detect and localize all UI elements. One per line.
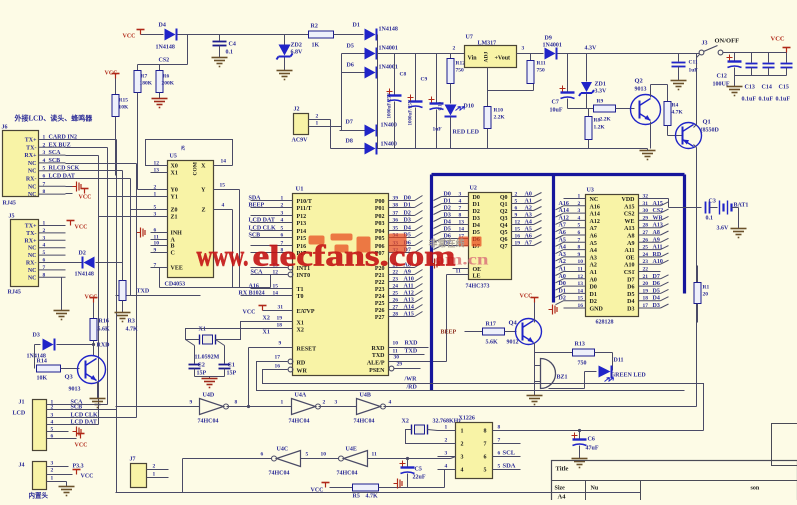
- svg-text:4: 4: [459, 199, 462, 205]
- svg-text:D4: D4: [404, 226, 411, 232]
- svg-text:11: 11: [578, 267, 583, 273]
- U5 pin 1 Y1: [151, 196, 168, 198]
- ground under C12: [727, 86, 743, 88]
- svg-text:23: 23: [643, 259, 649, 265]
- wire Q1 emitter up to rail: [696, 54, 698, 125]
- svg-text:X2: X2: [263, 316, 270, 322]
- svg-text:D1: D1: [473, 202, 480, 208]
- U1 pin 34 P05 to bus D5: [389, 237, 415, 239]
- J1 pin 1 SCA: [47, 404, 69, 406]
- U3 pin 3 A14: [556, 213, 564, 217]
- svg-text:1: 1: [153, 472, 156, 478]
- U1 pin 10 RXD: [389, 347, 429, 349]
- svg-text:ON/OFF: ON/OFF: [715, 38, 740, 45]
- svg-text:U4D: U4D: [203, 393, 215, 399]
- X2 wiring: [428, 430, 438, 431]
- svg-text:4: 4: [389, 400, 392, 406]
- MCU U1 main box: [293, 194, 389, 376]
- svg-text:D4: D4: [627, 299, 634, 305]
- U3 pin 2 A16: [556, 206, 564, 210]
- U1 pin 33 P06 to bus D6: [389, 245, 415, 247]
- U3 right pin 20 D6: [639, 285, 661, 287]
- svg-text:9013: 9013: [69, 387, 81, 393]
- svg-text:RX+: RX+: [24, 238, 37, 244]
- svg-text:3: 3: [459, 192, 462, 198]
- wire X1226 VCC line: [493, 430, 704, 432]
- U1 pin 3 P12: [251, 215, 293, 217]
- wire joining bypass caps bottoms: [735, 75, 787, 77]
- svg-text:6: 6: [484, 455, 487, 461]
- svg-text:Y0: Y0: [171, 188, 178, 194]
- J1 pin 4 LCD DAT: [47, 424, 69, 426]
- svg-text:11: 11: [456, 269, 461, 275]
- U3 right pin 32 VDD: [639, 198, 661, 200]
- svg-text:4.3V: 4.3V: [585, 46, 598, 52]
- svg-text:0.1: 0.1: [226, 50, 234, 56]
- decoupling cap near U2: [434, 259, 436, 269]
- svg-text:Q6: Q6: [500, 237, 508, 243]
- U1 pin 2 P11/T: [251, 207, 293, 209]
- svg-text:P02: P02: [375, 214, 385, 220]
- svg-text:VCC: VCC: [520, 294, 533, 300]
- svg-text:CS1: CS1: [624, 270, 635, 276]
- ground under crystal caps: [195, 376, 225, 378]
- svg-text:J5: J5: [9, 214, 15, 220]
- svg-text:1: 1: [154, 192, 157, 198]
- svg-text:Z0: Z0: [171, 208, 178, 214]
- diode D4 1N4148: [165, 29, 176, 41]
- svg-text:C2: C2: [198, 363, 205, 369]
- svg-text:RD: RD: [297, 361, 306, 367]
- svg-text:J7: J7: [130, 457, 136, 463]
- svg-text:X1: X1: [263, 330, 270, 336]
- svg-text:外接LCD、读头、蜂鸣器: 外接LCD、读头、蜂鸣器: [15, 114, 94, 123]
- svg-text:29: 29: [643, 215, 649, 221]
- svg-text:VCC: VCC: [771, 36, 785, 43]
- watermark orange logo blocks: [309, 234, 482, 253]
- U2 pin 15 Q5 A5: [512, 231, 534, 233]
- capacitor C14 0.1uF: [768, 53, 770, 63]
- zener ZD1 3.3V: [586, 54, 588, 82]
- svg-text:A6: A6: [559, 230, 566, 236]
- resistor R14 10K: [34, 345, 36, 369]
- RTC X1226: [456, 423, 493, 479]
- svg-text:R1: R1: [703, 285, 710, 291]
- decoupling cap at U5 INH: [140, 228, 142, 238]
- svg-text:25: 25: [393, 291, 399, 297]
- svg-text:20: 20: [703, 292, 709, 298]
- rectifier cathode bus wire: [377, 35, 379, 149]
- svg-text:12: 12: [578, 274, 584, 280]
- svg-text:VCC: VCC: [79, 195, 92, 201]
- svg-text:1: 1: [578, 194, 581, 200]
- svg-text:D0: D0: [559, 281, 566, 287]
- svg-text:P26: P26: [375, 308, 385, 314]
- U1 pin 39 P00 to bus D0: [389, 200, 415, 202]
- svg-text:NC: NC: [28, 184, 37, 190]
- svg-text:A10: A10: [624, 263, 634, 269]
- svg-text:16: 16: [275, 364, 281, 370]
- svg-text:2: 2: [316, 114, 319, 120]
- resistor R9 2.2K: [594, 105, 616, 112]
- resistor R16 5.6K: [93, 303, 95, 319]
- svg-text:A3: A3: [590, 255, 597, 261]
- svg-text:D7: D7: [627, 277, 634, 283]
- svg-text:RXD: RXD: [97, 343, 111, 349]
- svg-text:TX-: TX-: [26, 231, 36, 237]
- svg-text:C1: C1: [228, 363, 235, 369]
- svg-text:RXD: RXD: [405, 341, 419, 347]
- svg-text:74HC373: 74HC373: [466, 284, 490, 290]
- wire R4 to Q1 base: [667, 126, 669, 136]
- wire WR loop: [263, 370, 704, 431]
- svg-text:VCC: VCC: [75, 443, 88, 449]
- svg-text:X1226: X1226: [459, 416, 475, 422]
- connector J2 AC9V: [294, 114, 309, 135]
- svg-text:12: 12: [154, 161, 160, 167]
- svg-text:16: 16: [578, 303, 584, 309]
- svg-text:7: 7: [154, 263, 157, 269]
- svg-text:VCC: VCC: [123, 34, 136, 40]
- svg-text:COM: COM: [193, 161, 199, 175]
- svg-text:D0: D0: [590, 285, 597, 291]
- U3 right pin 25 A11: [639, 249, 661, 251]
- svg-text:D3: D3: [627, 307, 634, 313]
- ground under C4: [212, 57, 228, 59]
- svg-text:RD: RD: [653, 252, 662, 258]
- wire pin3 from U4E: [438, 456, 456, 458]
- svg-text:ADJ: ADJ: [484, 52, 490, 63]
- svg-text:R13: R13: [575, 342, 585, 348]
- svg-text:15: 15: [578, 296, 584, 302]
- svg-text:14: 14: [459, 227, 465, 233]
- svg-text:D6: D6: [347, 63, 354, 69]
- svg-text:VCC: VCC: [85, 295, 98, 301]
- U5 pin 10 B: [151, 245, 168, 247]
- U1 pin 15 T1 signal A16: [251, 288, 293, 290]
- svg-text:A16: A16: [590, 204, 600, 210]
- svg-text:19: 19: [277, 316, 283, 322]
- svg-text:A1: A1: [590, 270, 597, 276]
- X1 wiring: [186, 329, 263, 340]
- diode D8 1N4001: [331, 148, 365, 150]
- LED D10 RED LED: [445, 105, 457, 116]
- svg-text:U4C: U4C: [277, 447, 289, 453]
- U1 pin 7 P16: [251, 245, 293, 247]
- svg-text:6: 6: [498, 451, 501, 457]
- svg-text:2.2K: 2.2K: [600, 117, 612, 123]
- U2 pin 13 D4: [434, 225, 442, 229]
- wire X1 right to C1: [216, 340, 225, 346]
- wire X1 left to C2: [186, 340, 195, 346]
- U5 pin 3 Z1: [151, 216, 168, 218]
- wire loop X0 to X over top of U5: [146, 140, 233, 166]
- U5 pin 9 C: [151, 252, 168, 254]
- svg-text:8: 8: [484, 429, 487, 435]
- svg-text:X1: X1: [171, 171, 178, 177]
- svg-text:Q4: Q4: [509, 320, 518, 327]
- svg-text:1000uF/25V: 1000uF/25V: [388, 92, 393, 118]
- svg-text:T1: T1: [297, 287, 304, 293]
- U1 pin 13 INT1: [288, 265, 293, 270]
- svg-text:Vin: Vin: [468, 56, 478, 62]
- U3 pin 14 D1: [556, 293, 564, 297]
- svg-text:(8550D: (8550D: [701, 127, 720, 134]
- svg-text:74HC04: 74HC04: [198, 419, 219, 425]
- svg-text:12: 12: [515, 220, 521, 226]
- svg-text:R10: R10: [494, 108, 504, 114]
- svg-text:D3: D3: [473, 216, 480, 222]
- svg-text:P13: P13: [297, 221, 307, 227]
- U5 output X pin 14: [214, 165, 233, 167]
- svg-text:14: 14: [273, 291, 279, 297]
- svg-text:INH: INH: [171, 231, 183, 237]
- svg-text:3: 3: [445, 451, 448, 457]
- svg-text:2: 2: [515, 192, 518, 198]
- svg-text:AC9V: AC9V: [292, 138, 309, 144]
- svg-text:TXD: TXD: [372, 353, 385, 359]
- svg-text:4: 4: [43, 158, 46, 164]
- svg-text:27: 27: [643, 230, 649, 236]
- svg-text:B: B: [171, 244, 175, 250]
- U2 pin 12 Q4 A4: [512, 224, 534, 226]
- svg-text:U4A: U4A: [295, 393, 307, 399]
- svg-text:RJ45: RJ45: [8, 290, 21, 296]
- svg-text:A1: A1: [525, 199, 532, 205]
- svg-text:1: 1: [281, 400, 284, 406]
- U2 pin 1 OE: [453, 268, 469, 270]
- inverter U4A 74HC04: [292, 399, 316, 415]
- svg-text:TX+: TX+: [25, 138, 37, 144]
- svg-text:2: 2: [281, 203, 284, 209]
- svg-text:D2: D2: [559, 296, 566, 302]
- node wire C7 ZD1 R9: [568, 108, 594, 110]
- svg-text:15: 15: [515, 227, 521, 233]
- svg-text:23: 23: [393, 277, 399, 283]
- capacitor C4 0.1: [219, 35, 221, 41]
- svg-text:NC: NC: [28, 169, 37, 175]
- svg-text:37: 37: [393, 211, 399, 217]
- svg-text:36: 36: [393, 218, 399, 224]
- svg-text:EA/VP: EA/VP: [297, 309, 315, 315]
- U1 pin 25 P24 to bus A12: [389, 295, 415, 297]
- svg-text:1: 1: [461, 429, 464, 435]
- svg-text:R5: R5: [353, 494, 360, 500]
- connector J1 LCD: [33, 400, 47, 451]
- U3 right pin 26 A9: [639, 241, 661, 243]
- wire VDD to C3: [661, 198, 669, 200]
- svg-text:9: 9: [190, 400, 193, 406]
- svg-text:C8: C8: [400, 72, 407, 78]
- U1 pin 26 P25 to bus A13: [389, 302, 415, 304]
- svg-text:A15: A15: [653, 201, 663, 207]
- svg-text:17: 17: [643, 303, 649, 309]
- wire to X1226 pin4: [444, 470, 446, 488]
- svg-text:A4: A4: [590, 248, 597, 254]
- svg-text:9: 9: [279, 341, 282, 347]
- svg-text:J3: J3: [702, 41, 708, 47]
- svg-text:D10: D10: [464, 104, 474, 110]
- svg-text:22: 22: [643, 267, 649, 273]
- svg-text:X0: X0: [171, 164, 178, 170]
- U3 pin 16 GND: [564, 307, 586, 309]
- svg-text:3: 3: [43, 150, 46, 156]
- svg-text:A2: A2: [559, 259, 566, 265]
- bus vertical left of U2: [430, 175, 433, 391]
- svg-text:C9: C9: [421, 77, 428, 83]
- connector J4: [33, 462, 47, 490]
- wire U4C output down to bottom rail: [182, 459, 184, 493]
- U2 pin 17 D6: [434, 239, 442, 243]
- U3 right pin 19 D5: [639, 292, 661, 294]
- svg-text:R2: R2: [311, 24, 318, 30]
- VCC symbol top-left: [140, 30, 142, 35]
- svg-text:3: 3: [335, 400, 338, 406]
- svg-text:2: 2: [51, 405, 54, 411]
- svg-text:SCL: SCL: [503, 450, 516, 457]
- svg-text:BEEP: BEEP: [441, 330, 457, 336]
- svg-text:5: 5: [306, 452, 309, 458]
- svg-text:4.7K: 4.7K: [366, 494, 379, 500]
- svg-text:R17: R17: [486, 322, 496, 328]
- U1 pin 23 P22 to bus A10: [389, 281, 415, 283]
- svg-text:15P: 15P: [197, 371, 207, 377]
- U2 pin 5 Q1 A1: [512, 203, 534, 205]
- svg-text:13: 13: [154, 168, 160, 174]
- U3 right pin 27 A8: [639, 234, 661, 236]
- svg-text:47uF: 47uF: [586, 446, 599, 452]
- J4 pin 3 P3.3: [47, 466, 69, 468]
- svg-text:D4: D4: [473, 223, 480, 229]
- svg-text:VCC: VCC: [81, 474, 94, 480]
- J1 pin 5: [47, 431, 69, 433]
- J7 pin 2: [147, 469, 169, 471]
- svg-text:D2: D2: [473, 209, 480, 215]
- svg-text:26: 26: [393, 298, 399, 304]
- diode D9 1N4001: [545, 48, 556, 60]
- svg-text:R7: R7: [141, 74, 148, 80]
- svg-text:U3: U3: [587, 188, 594, 194]
- svg-text:Size: Size: [555, 486, 566, 492]
- TXD wire lower left: [116, 295, 201, 297]
- svg-text:26: 26: [182, 145, 187, 151]
- svg-text:30: 30: [394, 355, 400, 361]
- U5 pin 6 INH: [151, 232, 168, 234]
- svg-text:13: 13: [459, 220, 465, 226]
- U1 pin 1 P10/T: [251, 200, 293, 202]
- zener diode ZD2 6.8V: [284, 35, 286, 45]
- svg-text:A12: A12: [404, 291, 414, 297]
- svg-text:8: 8: [235, 400, 238, 406]
- svg-text:10: 10: [393, 341, 399, 347]
- svg-text:A16: A16: [249, 284, 259, 290]
- svg-text:628128: 628128: [596, 320, 614, 326]
- svg-text:LCD: LCD: [13, 411, 26, 417]
- svg-text:2: 2: [461, 442, 464, 448]
- X1226 pin 6 SCL: [493, 456, 521, 458]
- svg-text:A1: A1: [559, 267, 566, 273]
- resistor R5 4.7K: [330, 487, 353, 489]
- wire R3 top: [122, 263, 124, 281]
- inverter U4C 74HC04: [277, 451, 301, 467]
- svg-text:4: 4: [43, 243, 46, 249]
- svg-text:2: 2: [578, 201, 581, 207]
- svg-text:6: 6: [43, 258, 46, 264]
- svg-text:A9: A9: [627, 241, 634, 247]
- U1 pin 17 RD: [288, 359, 293, 364]
- resistor R8 1.2K: [588, 109, 590, 117]
- analog switch U5 CD4053: [168, 161, 214, 278]
- svg-text:Q1: Q1: [500, 202, 508, 208]
- svg-text:16: 16: [515, 234, 521, 240]
- svg-text:A12: A12: [559, 215, 569, 221]
- wire VEE down: [159, 268, 161, 288]
- svg-text:2: 2: [51, 468, 54, 474]
- svg-text:A11: A11: [653, 245, 663, 251]
- title block frame: [552, 461, 797, 502]
- svg-text:D4: D4: [159, 23, 166, 29]
- svg-text:D2: D2: [404, 211, 411, 217]
- X1226 pin 4: [438, 469, 456, 471]
- svg-text:0.1uF: 0.1uF: [742, 97, 757, 103]
- svg-text:18: 18: [277, 323, 283, 329]
- svg-text:3: 3: [281, 211, 284, 217]
- capacitor C5 22uF: [407, 459, 409, 467]
- ground under J4 pin1: [59, 486, 75, 488]
- svg-text:28: 28: [643, 223, 649, 229]
- U2 pin 18 D7: [434, 246, 442, 250]
- capacitor C12 100UF: [734, 53, 736, 61]
- svg-text:P25: P25: [375, 301, 385, 307]
- U1 pin 27 P26 to bus A14: [389, 309, 415, 311]
- svg-text:1: 1: [281, 196, 284, 202]
- svg-text:J4: J4: [19, 463, 25, 469]
- U3 pin 11 A1: [556, 272, 564, 276]
- U2 pin 2 Q0 A0: [512, 196, 534, 198]
- svg-text:SCB: SCB: [249, 233, 261, 239]
- svg-text:74HC04: 74HC04: [269, 471, 290, 477]
- U1 pin 9 RESET: [249, 347, 293, 349]
- U1 pin 12 INT0 signal SCA: [288, 272, 293, 277]
- diode D6 1N4001: [342, 72, 365, 74]
- svg-text:3: 3: [154, 212, 157, 218]
- decoupling cap near C5: [397, 479, 399, 489]
- svg-text:A10: A10: [653, 259, 663, 265]
- svg-text:Q2: Q2: [500, 209, 508, 215]
- wire D2 to Z1 net: [122, 171, 124, 263]
- svg-text:2: 2: [43, 142, 46, 148]
- svg-text:OE: OE: [626, 255, 635, 261]
- capacitor C6 47uF: [579, 431, 581, 439]
- svg-text:10: 10: [578, 259, 584, 265]
- connector J5 RJ45: [11, 220, 39, 287]
- svg-text:A13: A13: [653, 223, 663, 229]
- bottom power rail: [378, 148, 648, 150]
- svg-text:D9: D9: [545, 36, 552, 42]
- wire J2 pin2 to D8: [330, 120, 332, 149]
- svg-text:10: 10: [154, 241, 160, 247]
- svg-text:38: 38: [393, 203, 399, 209]
- svg-text:D3: D3: [444, 213, 451, 219]
- svg-text:D5: D5: [627, 292, 634, 298]
- svg-text:A7: A7: [525, 241, 532, 247]
- svg-text:4: 4: [578, 215, 581, 221]
- resistor R10 2.2K: [487, 91, 489, 107]
- svg-text:2: 2: [43, 228, 46, 234]
- capacitor C2 15P: [194, 346, 196, 364]
- svg-text:11: 11: [372, 452, 377, 458]
- svg-text:A6: A6: [590, 234, 597, 240]
